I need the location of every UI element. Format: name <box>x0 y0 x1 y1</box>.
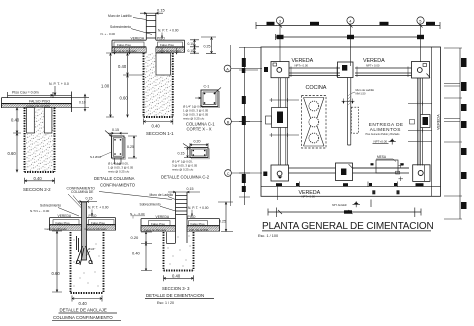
svg-text:N.4 Ø3/8": N.4 Ø3/8" <box>90 155 102 159</box>
svg-text:CONFINAMIENTO: CONFINAMIENTO <box>100 183 136 188</box>
column C-2 section <box>183 144 191 149</box>
svg-text:VEREDA: VEREDA <box>58 214 72 218</box>
wire inner vereda lines <box>261 47 441 196</box>
svg-text:Cama de Afirmado: Cama de Afirmado <box>85 227 108 231</box>
wire leader <box>54 86 56 96</box>
svg-text:Sobrecimiento: Sobrecimiento <box>140 203 161 207</box>
node left dim column <box>239 47 261 205</box>
wire 0.60 dim anclaje <box>52 231 62 292</box>
svg-text:0.15: 0.15 <box>187 187 194 191</box>
svg-text:ALIMENTOS: ALIMENTOS <box>370 127 401 132</box>
column C-2 mid-right <box>421 115 431 128</box>
wire dim 0.40/0.60 <box>123 53 144 117</box>
svg-text:NPT. ALIGER.: NPT. ALIGER. <box>332 204 347 207</box>
node grid bubble B <box>225 118 232 125</box>
svg-text:DETALLE DE CIMENTACION: DETALLE DE CIMENTACION <box>146 293 204 298</box>
svg-text:0.25: 0.25 <box>219 220 226 224</box>
svg-text:Piso Cemento Pulido y Bruñado: Piso Cemento Pulido y Bruñado <box>366 133 401 136</box>
svg-text:0.40: 0.40 <box>118 64 127 69</box>
svg-text:SECCION 2-2: SECCION 2-2 <box>23 187 51 192</box>
svg-text:VEREDA: VEREDA <box>156 215 170 219</box>
svg-text:Falso Piso: Falso Piso <box>117 43 131 47</box>
svg-text:resto @ 0.25 c/u: resto @ 0.25 c/u <box>172 168 194 172</box>
svg-text:0.40: 0.40 <box>11 118 20 123</box>
svg-text:0.15: 0.15 <box>112 128 119 132</box>
svg-text:CIM. DE AFIRM.: CIM. DE AFIRM. <box>189 228 209 232</box>
svg-text:Muro de Ladrillo: Muro de Ladrillo <box>108 14 132 18</box>
svg-text:0.10: 0.10 <box>188 42 195 46</box>
wall bottom <box>289 168 410 173</box>
node rebar dashes <box>77 236 79 252</box>
svg-text:DETALLE COLUMNA: DETALLE COLUMNA <box>94 176 135 181</box>
column C-2 mid-left <box>272 108 288 128</box>
svg-text:COLUMNA CONFINAMIENTO: COLUMNA CONFINAMIENTO <box>53 315 113 320</box>
footing F1 top-left <box>271 62 289 78</box>
svg-text:NM-1.50: NM-1.50 <box>356 92 367 96</box>
svg-text:NPT+ 0.00: NPT+ 0.00 <box>295 63 309 67</box>
node anchor hooks <box>76 246 93 265</box>
svg-text:NPT+ 0.00: NPT+ 0.00 <box>302 194 316 198</box>
svg-text:Sobrecimiento: Sobrecimiento <box>110 25 131 29</box>
svg-text:0.60: 0.60 <box>8 151 17 156</box>
wire bottom dim <box>25 178 55 184</box>
wire dim 1.00 <box>106 53 146 117</box>
svg-text:PISO: PISO <box>188 215 196 219</box>
svg-text:VEREDA: VEREDA <box>437 114 441 130</box>
svg-text:N. P. T. + 0.00: N. P. T. + 0.00 <box>88 206 109 210</box>
svg-text:N.T.N + - 0.00: N.T.N + - 0.00 <box>30 209 49 213</box>
wire dim 0.20/0.40 S3-3 <box>141 232 152 271</box>
wire top dim line 2 <box>276 34 424 40</box>
kitchen counter dashed <box>302 96 327 149</box>
wall column (muro) <box>146 13 156 40</box>
svg-text:Cama de Afirmado: Cama de Afirmado <box>144 228 167 232</box>
svg-text:C: C <box>227 172 230 176</box>
svg-text:NPT+ 0.00: NPT+ 0.00 <box>366 63 380 67</box>
node dim texts row1 <box>267 22 275 25</box>
wire grid verticals <box>280 24 421 66</box>
svg-text:0.40: 0.40 <box>132 251 141 256</box>
wire bottom dim S3-3 <box>164 275 194 281</box>
column confinamiento section <box>105 131 112 137</box>
svg-text:DETALLE DE ANCLAJE: DETALLE DE ANCLAJE <box>60 308 107 313</box>
wire dim line <box>8 92 72 98</box>
wire top dim line 1 <box>256 22 440 29</box>
svg-text:0.40: 0.40 <box>34 176 43 181</box>
wire 0.40 dim anclaje <box>72 296 102 302</box>
node sink unit 1 <box>309 101 319 111</box>
node outer vereda rect <box>261 47 441 196</box>
column C-1 section <box>203 92 220 108</box>
node stub below <box>115 158 122 164</box>
svg-text:DETALLE COLUMNA C-2: DETALLE COLUMNA C-2 <box>161 175 210 180</box>
svg-text:N. + - 0.00: N. + - 0.00 <box>130 212 145 216</box>
wire bottom dim line <box>268 200 421 218</box>
svg-text:0.20: 0.20 <box>194 140 201 144</box>
svg-text:CORTE X - X: CORTE X - X <box>187 127 212 132</box>
wire interior dim ticks <box>270 98 433 142</box>
wall mid stub <box>348 78 351 146</box>
svg-text:SECCION 1-1: SECCION 1-1 <box>146 131 174 136</box>
svg-text:0.15: 0.15 <box>178 152 185 156</box>
wire dim vertical <box>13 108 21 173</box>
svg-text:0.25: 0.25 <box>127 145 134 149</box>
node slab left S3-3 <box>141 219 176 232</box>
foundation block S2-2 <box>25 108 55 173</box>
node black blobs bottom row <box>372 190 375 194</box>
wall column S3-3 <box>176 192 188 243</box>
svg-text:Cama de Afirmado: Cama de Afirmado <box>45 227 68 231</box>
node notch right <box>44 108 52 134</box>
svg-text:Muro de Ladrillo: Muro de Ladrillo <box>150 193 174 197</box>
svg-text:Falso Piso: Falso Piso <box>191 222 205 226</box>
footing F2 top-mid <box>338 62 354 78</box>
svg-text:resto @ 0.25 c/u: resto @ 0.25 c/u <box>183 117 205 121</box>
wall right <box>417 78 422 166</box>
node grid bubble A <box>230 45 232 206</box>
svg-text:4: 4 <box>349 18 352 23</box>
svg-text:N. P. T. + 0.00: N. P. T. + 0.00 <box>188 206 209 210</box>
footing F3 top-right <box>412 62 430 79</box>
svg-text:0.40: 0.40 <box>172 273 181 278</box>
svg-text:COLUMNA DE: COLUMNA DE <box>71 190 94 194</box>
node falso piso slab <box>2 92 72 113</box>
foundation block anclaje <box>71 232 104 293</box>
svg-text:Falso Piso: Falso Piso <box>160 43 174 47</box>
node slab right anclaje <box>87 218 116 231</box>
svg-text:resto @ 0.25 c/u: resto @ 0.25 c/u <box>108 170 130 174</box>
footing F6 bottom-right <box>413 165 430 182</box>
footing F5 bottom-mid <box>336 163 353 181</box>
svg-text:NPT+0.00: NPT+0.00 <box>374 140 388 144</box>
node level mark <box>389 139 397 145</box>
node notch left <box>27 108 35 134</box>
svg-text:Esc: 1 / 20: Esc: 1 / 20 <box>157 301 174 305</box>
node slab right <box>156 40 185 52</box>
svg-text:N. P. T. + 0.00: N. P. T. + 0.00 <box>158 29 179 33</box>
svg-text:0.40: 0.40 <box>152 124 161 129</box>
node notch right S1-1 <box>156 53 171 75</box>
wall left <box>279 78 288 165</box>
node cama de afirmado band <box>2 104 72 108</box>
svg-text:PISO: PISO <box>89 214 97 218</box>
svg-text:1.00: 1.00 <box>101 84 110 89</box>
svg-text:0.60: 0.60 <box>52 271 61 276</box>
node slab left <box>112 40 146 52</box>
node mesa rect <box>376 160 398 173</box>
node cama bands anclaje <box>50 225 82 230</box>
svg-text:N. P. T. + 0.0: N. P. T. + 0.0 <box>49 82 69 86</box>
node cama bands <box>112 48 146 53</box>
node grid bubble 4 <box>347 17 354 24</box>
svg-text:MESA: MESA <box>377 155 387 159</box>
svg-text:Falso Piso: Falso Piso <box>151 222 165 226</box>
column shaft (grey) <box>82 202 87 260</box>
wall top <box>289 68 412 76</box>
svg-text:Cama de Afirmado: Cama de Afirmado <box>114 49 138 53</box>
svg-text:SECCION 3- 3: SECCION 3- 3 <box>162 286 190 291</box>
svg-text:C-1: C-1 <box>204 85 210 89</box>
node grid bubble 3 <box>276 17 283 24</box>
wire leaders <box>68 192 172 208</box>
svg-text:5: 5 <box>419 18 422 23</box>
node cama bands S3-3 <box>141 226 176 231</box>
svg-text:COCINA: COCINA <box>306 85 327 91</box>
svg-text:Esc. 1 / 100: Esc. 1 / 100 <box>258 234 278 238</box>
svg-text:Muro de Ladrillo: Muro de Ladrillo <box>356 88 375 92</box>
svg-text:N. + - 0.00: N. + - 0.00 <box>101 32 116 36</box>
svg-text:3: 3 <box>279 18 282 23</box>
foundation block S1-1 <box>144 53 174 117</box>
svg-text:0.15: 0.15 <box>86 197 93 201</box>
svg-text:Falso Piso: Falso Piso <box>56 221 70 225</box>
node grid bubble 5 <box>417 17 424 24</box>
foundation block S3-3 <box>164 232 194 271</box>
svg-text:FALSO PISO: FALSO PISO <box>29 99 50 103</box>
svg-text:Piso Cau = 0.0m: Piso Cau = 0.0m <box>12 91 39 95</box>
svg-text:0.20: 0.20 <box>131 235 140 240</box>
node slab right S3-3 <box>187 219 220 232</box>
svg-text:0.60: 0.60 <box>120 96 129 101</box>
node right dim column <box>444 48 462 219</box>
svg-text:Falso Piso: Falso Piso <box>91 221 105 225</box>
svg-text:Ø1/4": Ø1/4" <box>88 247 95 251</box>
svg-text:0.25: 0.25 <box>204 45 211 49</box>
svg-text:0.10: 0.10 <box>188 49 195 53</box>
svg-text:0.40: 0.40 <box>79 301 88 306</box>
node notch left S3-3 <box>167 232 176 244</box>
svg-text:0.15: 0.15 <box>157 8 166 13</box>
svg-text:PLANTA GENERAL DE CIMENTACION: PLANTA GENERAL DE CIMENTACION <box>262 221 434 232</box>
footing F4 bottom-left <box>271 165 289 181</box>
node slab left anclaje <box>50 218 82 231</box>
wire bottom dim S1-1 <box>144 119 173 125</box>
node grid bubble C <box>225 170 232 177</box>
svg-text:Sobrecimiento: Sobrecimiento <box>40 204 61 208</box>
